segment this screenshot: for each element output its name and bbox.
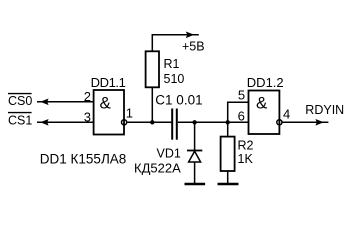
arrow to RDYIN (points right) — [315, 119, 323, 126]
node CS1 label — [8, 113, 32, 128]
gate DD1.1 body — [94, 90, 124, 135]
pin 1 inversion bubble — [122, 120, 127, 125]
svg-text:510: 510 — [164, 72, 185, 86]
diode VD1 cathode bar — [187, 150, 202, 152]
junction dot at R1 bottom — [150, 120, 154, 124]
svg-text:1K: 1K — [238, 152, 254, 166]
svg-text:R2: R2 — [238, 139, 254, 153]
svg-text:&: & — [100, 94, 112, 113]
pin 4 inversion bubble — [277, 120, 282, 125]
wire R1 bottom lead — [151, 87, 153, 122]
diode VD1 triangle — [189, 151, 201, 162]
svg-text:+5В: +5В — [182, 39, 205, 53]
svg-text:&: & — [256, 94, 268, 113]
svg-text:CS0: CS0 — [8, 94, 32, 108]
wire node to pin 5 — [228, 102, 249, 122]
wire gate1 output to C1 — [127, 121, 171, 123]
ground under R2 — [218, 183, 239, 186]
svg-text:3: 3 — [84, 109, 91, 124]
svg-text:CS1: CS1 — [8, 114, 32, 128]
junction dot at R2 — [226, 120, 230, 124]
wire CS1 input — [37, 121, 94, 123]
wire R2 top lead — [227, 122, 229, 136]
svg-text:5: 5 — [238, 87, 245, 102]
svg-text:КД522А: КД522А — [134, 160, 181, 175]
gate DD1.2 body — [249, 91, 280, 135]
wire C1 to gate DD1.2 pin 6 — [178, 121, 249, 123]
svg-text:RDYIN: RDYIN — [305, 103, 344, 117]
wire gate2 output to RDYIN — [283, 121, 329, 123]
svg-text:1: 1 — [126, 106, 133, 121]
svg-text:6: 6 — [238, 108, 245, 123]
svg-text:4: 4 — [283, 106, 290, 121]
junction dot at VD1 — [192, 120, 196, 124]
resistor R1 body — [146, 51, 159, 87]
wire VD1 top lead — [194, 122, 196, 150]
node CS0 label — [8, 94, 32, 108]
wire R1 top lead — [152, 35, 199, 52]
capacitor C1 plates — [171, 109, 173, 140]
svg-text:DD1.2: DD1.2 — [247, 75, 284, 90]
ground under VD1 — [185, 183, 206, 186]
svg-text:2: 2 — [84, 89, 91, 104]
arrow on CS1 wire (points left) — [40, 119, 48, 126]
wire CS0 input — [37, 101, 94, 103]
arrow to +5V (points right) — [186, 32, 194, 39]
svg-text:VD1: VD1 — [157, 146, 181, 160]
arrow on CS0 wire (points left) — [40, 99, 48, 106]
wire VD1 bottom lead — [194, 162, 196, 184]
svg-text:DD1 К155ЛА8: DD1 К155ЛА8 — [40, 151, 127, 166]
svg-text:R1: R1 — [164, 57, 180, 71]
resistor R2 body — [221, 137, 235, 171]
svg-text:C1 0.01: C1 0.01 — [155, 92, 202, 107]
svg-text:DD1.1: DD1.1 — [91, 75, 126, 90]
wire R2 bottom lead — [227, 171, 229, 184]
